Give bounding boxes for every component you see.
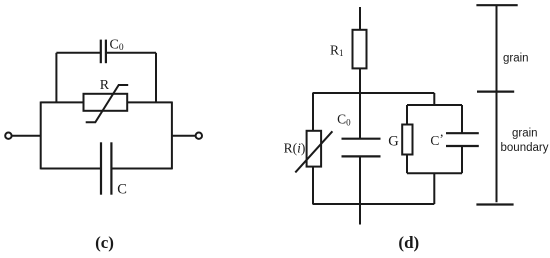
capacitor C plate 1	[100, 142, 102, 194]
svg-text:boundary: boundary	[501, 142, 549, 154]
resistor R1	[353, 30, 367, 69]
wire bottom branch left	[41, 168, 101, 170]
wire bottom branch right	[111, 168, 171, 170]
wire C0 loop left vertical	[55, 53, 57, 103]
wire main vertical to C0	[359, 93, 361, 139]
wire top stub	[359, 7, 361, 30]
wire C0 top right	[106, 52, 156, 54]
resistor R varistor diagonal stroke	[86, 85, 129, 122]
svg-text:R: R	[100, 78, 110, 93]
wire left terminal lead	[12, 135, 41, 137]
capacitor C' top plate	[446, 132, 479, 134]
wire sub-box right upper	[461, 105, 463, 133]
wire outer left vertical	[40, 102, 42, 170]
wire C0 loop right vertical	[155, 53, 157, 103]
capacitor C0 bottom plate	[342, 155, 381, 157]
wire sub-box connect bottom	[433, 173, 435, 204]
wire sub-box connect top	[433, 93, 435, 105]
wire R1 to top bus	[359, 68, 361, 94]
wire sub-box top edge	[407, 104, 462, 106]
svg-text:R(i): R(i)	[284, 141, 306, 156]
wire main vertical below C0 to bottom stub	[359, 156, 361, 224]
svg-text:R1: R1	[330, 42, 344, 58]
wire sub-box bottom edge	[407, 172, 462, 174]
svg-text:C0: C0	[110, 37, 124, 53]
svg-text:(d): (d)	[398, 233, 419, 252]
scale bar middle tick	[477, 90, 514, 92]
wire sub-box right lower	[461, 146, 463, 173]
scale bar top tick	[476, 4, 517, 6]
varistor R(i) diagonal stroke	[295, 131, 332, 172]
scale bar vertical line	[496, 5, 498, 202]
capacitor C plate 2	[110, 142, 112, 194]
resistor R (varistor box)	[84, 94, 128, 111]
svg-text:C’: C’	[430, 132, 444, 149]
svg-text:C: C	[117, 182, 127, 198]
wire middle branch left	[41, 101, 84, 103]
capacitor C' bottom plate	[446, 145, 479, 147]
wire bottom bus	[313, 203, 435, 205]
varistor R(i) box	[307, 131, 322, 167]
wire sub-box left lower	[406, 155, 408, 174]
svg-text:grain: grain	[503, 53, 529, 65]
svg-text:(c): (c)	[95, 233, 114, 252]
svg-text:C0: C0	[337, 111, 351, 127]
capacitor C0 plate 1	[100, 40, 102, 64]
capacitor C0 plate 2	[105, 40, 107, 64]
wire left branch lower vertical	[312, 167, 314, 204]
capacitor C0 top plate	[342, 138, 381, 140]
wire left branch upper vertical	[312, 93, 314, 131]
svg-text:G: G	[388, 134, 399, 150]
svg-text:grain: grain	[512, 128, 538, 140]
terminal left	[5, 133, 11, 139]
wire C0 top left	[56, 52, 100, 54]
conductance G box	[402, 125, 412, 155]
scale bar bottom tick	[476, 203, 513, 205]
wire top bus	[313, 92, 435, 94]
wire middle branch right	[127, 101, 172, 103]
wire sub-box left upper	[406, 105, 408, 125]
terminal right	[196, 133, 202, 139]
wire outer right vertical	[171, 102, 173, 170]
wire right terminal lead	[172, 135, 196, 137]
